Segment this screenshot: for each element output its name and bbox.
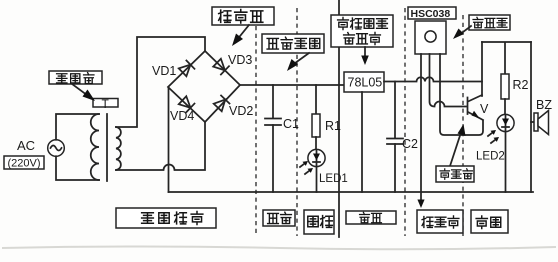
svg-text:BZ: BZ <box>536 98 552 112</box>
wire primary loop <box>56 114 99 180</box>
transistor V <box>468 95 490 120</box>
transformer T primary winding <box>91 114 99 180</box>
stage separator dashed line 1 <box>255 26 257 236</box>
label VD3 <box>228 53 252 67</box>
transformer T secondary winding <box>116 127 121 170</box>
scan smudge <box>2 247 556 250</box>
diode VD1 <box>179 61 195 77</box>
wire secondary bottom to bridge with hop <box>116 122 205 170</box>
svg-text:VD3: VD3 <box>228 53 252 67</box>
svg-text:78L05: 78L05 <box>348 76 383 90</box>
LED LED1 <box>300 149 348 192</box>
label HSC038 <box>408 7 456 20</box>
label 二次集成稳压器 callout <box>331 15 393 65</box>
LED LED2 <box>476 114 514 192</box>
resistor R1 <box>312 85 341 150</box>
bridge rectifier diamond wires <box>168 51 240 122</box>
label 滤波电容 callout <box>262 34 324 71</box>
wire HSC038 pin2 lead to transistor base <box>430 54 467 107</box>
label 变压器 callout <box>49 71 102 101</box>
svg-text:(220V): (220V) <box>8 158 41 170</box>
label (220V) <box>4 156 44 170</box>
label box 电源 <box>304 210 334 234</box>
label 放大器 callout <box>436 124 474 182</box>
wire 78L05 ground pin <box>361 92 363 192</box>
svg-text:VD2: VD2 <box>229 104 253 118</box>
diode VD3 <box>213 59 229 75</box>
svg-text:R1: R1 <box>325 119 341 133</box>
wire top rail to R2 and BZ <box>482 42 531 74</box>
stage separator dashed line 2 <box>296 8 298 236</box>
svg-text:LED2: LED2 <box>476 151 505 163</box>
wire bridge left corner to ground rail <box>168 87 170 192</box>
diode VD4 <box>179 96 195 112</box>
label 接收头 callout <box>453 15 510 39</box>
label T <box>93 97 118 111</box>
wire secondary top to bridge <box>116 37 205 127</box>
ground rail wire <box>169 191 534 193</box>
capacitor C2 <box>387 82 418 193</box>
wire positive rail bridge to 78L05 <box>240 84 344 86</box>
label box 放大 <box>471 210 508 233</box>
svg-text:LED1: LED1 <box>319 173 348 185</box>
svg-text:AC: AC <box>17 138 35 153</box>
wire HSC038 pin3 lead to emitter loop <box>440 54 483 135</box>
label box 滤波 <box>263 210 295 226</box>
svg-text:R2: R2 <box>513 78 529 92</box>
diode VD2 <box>214 96 230 112</box>
resistor R2 <box>501 74 529 115</box>
stage separator dashed line 3 <box>404 8 406 236</box>
label box 稳压 <box>346 211 396 224</box>
stage separator solid line <box>338 0 340 237</box>
wire HSC038 pin1 lead and infrared annotation arrow <box>417 54 424 208</box>
buzzer BZ <box>531 42 552 192</box>
label box 红外线 <box>417 210 463 233</box>
stage separator dashed line 4 <box>462 15 464 236</box>
AC source G1 <box>17 138 64 156</box>
svg-text:T: T <box>102 97 110 111</box>
svg-text:V: V <box>480 102 489 116</box>
transformer core <box>106 114 108 181</box>
label 整流桥 callout <box>212 7 274 46</box>
svg-text:HSC038: HSC038 <box>411 8 451 20</box>
label VD1 <box>152 64 176 78</box>
label box 变压整流 <box>116 208 216 228</box>
wire collector node vertical <box>481 42 483 96</box>
IR receiver module HSC038 package <box>415 21 446 54</box>
wire positive rail after 78L05 with hops over HSC038 legs <box>384 77 482 81</box>
label VD4 <box>170 109 194 123</box>
label VD2 <box>229 104 253 118</box>
regulator U1 78L05 <box>344 72 384 92</box>
svg-text:VD4: VD4 <box>170 109 194 123</box>
svg-text:VD1: VD1 <box>152 64 176 78</box>
svg-text:C1: C1 <box>283 117 299 131</box>
capacitor C1 <box>265 85 299 192</box>
svg-text:C2: C2 <box>402 137 418 151</box>
